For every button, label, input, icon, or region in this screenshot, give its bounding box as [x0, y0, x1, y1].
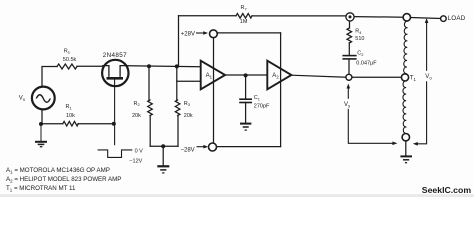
svg-text:A1: A1 — [206, 73, 213, 80]
svg-text:C1: C1 — [254, 95, 261, 101]
wire feedback vertical — [178, 16, 180, 67]
terminal -28V — [209, 143, 217, 151]
transformer T1 winding top — [404, 21, 408, 73]
terminal A2 output node — [346, 74, 352, 80]
label C2 — [356, 51, 377, 67]
svg-text:270pF: 270pF — [254, 104, 270, 110]
svg-text:1M: 1M — [240, 19, 248, 25]
wire A2 supply vertical — [280, 33, 282, 147]
svg-text:Vs: Vs — [344, 102, 350, 109]
wire R4 to C2 — [348, 43, 350, 55]
svg-text:LOAD: LOAD — [448, 15, 466, 22]
wire -28V rail — [217, 146, 281, 148]
wire R2 bottom — [149, 116, 151, 147]
resistor R2 20k — [148, 100, 153, 115]
svg-text:20k: 20k — [184, 113, 193, 119]
svg-text:A2: A2 — [272, 73, 279, 80]
wire A1 supply vertical — [213, 38, 215, 143]
label Rs — [63, 48, 77, 63]
wire R3 bottom — [177, 116, 179, 147]
svg-text:Vo: Vo — [425, 74, 432, 81]
wire R1 row — [41, 123, 63, 125]
svg-text:50.5k: 50.5k — [63, 57, 77, 63]
terminal T1 top — [403, 14, 410, 21]
node gate — [112, 122, 116, 126]
resistor R7 — [236, 14, 252, 19]
resistor R4 510 — [347, 28, 352, 43]
label C1 — [254, 95, 270, 110]
wire T1 bottom stem — [405, 141, 407, 156]
svg-text:−12V: −12V — [129, 158, 142, 164]
transistor Q1 2N4857 — [102, 60, 128, 145]
arrow Vo measure — [413, 18, 429, 146]
wire top right — [354, 16, 403, 19]
resistor R3 20k — [175, 100, 180, 115]
resistor Rs 50.5k — [57, 64, 77, 69]
svg-text:R1: R1 — [66, 104, 73, 110]
node R2 tap — [147, 64, 151, 68]
node ground mid — [161, 144, 165, 148]
svg-text:R2: R2 — [134, 101, 141, 107]
ground under R2R3 rail — [157, 166, 169, 173]
ground under Vs — [35, 126, 47, 147]
svg-text:0 V: 0 V — [135, 148, 144, 154]
terminal T1 center tap — [401, 74, 408, 81]
svg-text:+28V: +28V — [181, 32, 195, 38]
svg-text:Rs: Rs — [64, 48, 70, 54]
wire ground stem mid — [162, 146, 164, 165]
wire Rs to Q1 — [77, 65, 102, 67]
capacitor C1 270pF — [239, 99, 252, 102]
bottom scan strip — [0, 194, 474, 197]
svg-text:20k: 20k — [132, 113, 141, 119]
wire C1 stem top — [245, 75, 247, 98]
label R2 — [132, 101, 141, 119]
terminal T1 bottom — [402, 134, 409, 141]
svg-text:Vs: Vs — [19, 96, 25, 103]
wire to T1 center tap — [352, 76, 401, 78]
node R3/feedback tap — [175, 64, 179, 68]
resistor R1 10k — [63, 121, 79, 126]
svg-text:2N4857: 2N4857 — [103, 52, 127, 59]
arrow +28V — [196, 31, 208, 35]
svg-text:−28V: −28V — [181, 147, 195, 153]
label R1 — [66, 104, 76, 119]
wire A2 output — [291, 75, 346, 77]
label R3 — [184, 101, 193, 119]
ground under T1 — [400, 156, 412, 162]
svg-text:0.047µF: 0.047µF — [356, 61, 377, 67]
wire C2 to node — [348, 59, 350, 74]
label R7 — [240, 5, 248, 25]
svg-text:SeekIC.com: SeekIC.com — [422, 185, 472, 195]
wire A1 output — [225, 74, 267, 76]
wire R4 stem top — [349, 21, 351, 28]
op-amp A2 — [267, 61, 291, 90]
wire top mid — [252, 15, 346, 17]
wire to LOAD — [411, 18, 441, 19]
svg-text:R4: R4 — [355, 29, 362, 35]
svg-text:A2 = HELIPOT MODEL 823 POWER A: A2 = HELIPOT MODEL 823 POWER AMP — [6, 176, 121, 184]
wire Vs top to Rs — [42, 67, 57, 87]
ground under C1 — [240, 124, 251, 131]
terminal +28V — [210, 30, 218, 38]
svg-text:510: 510 — [355, 36, 364, 42]
svg-text:C2: C2 — [357, 51, 364, 57]
svg-text:T1: T1 — [410, 76, 417, 83]
svg-text:A1 = MOTOROLA MC1436G OP AMP: A1 = MOTOROLA MC1436G OP AMP — [6, 167, 110, 175]
wire R2R3 bottom rail — [150, 145, 178, 147]
svg-text:T1 = MICROTRAN MT 11: T1 = MICROTRAN MT 11 — [6, 185, 76, 193]
label R4 — [355, 29, 364, 42]
wire R3 drop — [176, 66, 178, 100]
node top junction (circled dot) — [346, 13, 354, 21]
wire R2 drop — [148, 66, 150, 100]
source Vs — [32, 87, 55, 110]
transformer T1 winding bottom — [403, 81, 407, 134]
wire R1 to gate — [78, 123, 114, 125]
pulse waveform 0V/-12V — [98, 150, 133, 158]
svg-text:R3: R3 — [184, 101, 191, 107]
svg-text:R7: R7 — [241, 5, 248, 11]
arrow -28V — [197, 145, 209, 149]
wire +28V to A2 supply — [217, 32, 280, 34]
node A1 output — [244, 73, 248, 77]
capacitor C2 0.047uF — [342, 56, 356, 59]
wire C1 stem bottom — [245, 103, 247, 123]
arrow Vs measure — [347, 84, 398, 146]
wire Q1 to A1 input — [128, 66, 200, 67]
svg-text:10k: 10k — [66, 113, 75, 119]
node Vs bottom — [39, 122, 43, 126]
wire top left — [179, 15, 237, 17]
wire A1 inv input — [177, 80, 201, 82]
op-amp A1 — [201, 61, 225, 90]
terminal LOAD — [441, 16, 447, 22]
wire Vs bottom — [41, 110, 43, 125]
